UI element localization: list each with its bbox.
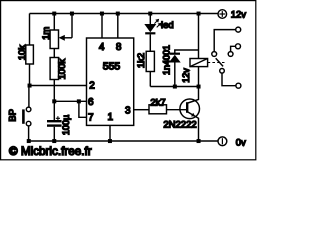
junction dot pin 8 on rail bbox=[116, 12, 120, 16]
svg-text:1n4001: 1n4001 bbox=[162, 45, 172, 75]
wire: threshold horizontal to pin 6 bbox=[54, 100, 86, 102]
relay actuation dashed link bbox=[208, 62, 225, 64]
terminal +12v plus sign bbox=[219, 11, 225, 17]
svg-text:4: 4 bbox=[99, 42, 105, 53]
junction dot trigger node bbox=[28, 84, 32, 88]
transistor Q1 2N2222 body circle bbox=[180, 99, 200, 119]
op-amp U1 555 timer body bbox=[87, 38, 134, 125]
terminal 0v bar bbox=[221, 138, 223, 144]
switch fixed contact C1 bbox=[212, 52, 217, 57]
wire: capacitor bottom to 0v rail bbox=[53, 127, 55, 141]
svg-text:2: 2 bbox=[89, 81, 95, 92]
svg-text:12v: 12v bbox=[231, 9, 247, 20]
junction dot threshold node bbox=[52, 99, 56, 103]
push button BP actuator bar bbox=[22, 109, 25, 123]
resistor 10k bbox=[26, 45, 34, 64]
wire: diode anode down to collector node bbox=[174, 63, 176, 87]
wire: BP bottom to 0v rail bbox=[28, 126, 30, 141]
wire: contact C1 to terminal T1 bbox=[214, 30, 236, 52]
svg-text:led: led bbox=[161, 20, 174, 31]
svg-text:BP: BP bbox=[8, 109, 19, 122]
svg-text:2k7: 2k7 bbox=[150, 97, 165, 108]
wire: pin 1 to 0v rail bbox=[109, 125, 111, 141]
wire: rail to LED anode bbox=[149, 14, 151, 25]
LED light arrow 2 bbox=[157, 23, 162, 28]
wire: relay coil bottom to collector node bbox=[198, 67, 200, 87]
wire: rail down to relay coil bbox=[198, 14, 200, 59]
potentiometer 1m body bbox=[50, 30, 58, 49]
wire: trigger node down to BP bbox=[28, 86, 30, 108]
junction dot BP/0v rail bbox=[27, 139, 31, 143]
border frame bbox=[1, 1, 256, 160]
resistor 1k2 bbox=[146, 51, 154, 71]
svg-text:1: 1 bbox=[108, 112, 114, 123]
svg-text:555: 555 bbox=[103, 61, 121, 73]
svg-text:8: 8 bbox=[116, 42, 122, 53]
wire: +12v top rail bbox=[30, 13, 219, 15]
switch terminal T2 bbox=[236, 44, 241, 49]
svg-text:3: 3 bbox=[125, 106, 131, 117]
wire: pin 4 to rail bbox=[101, 14, 103, 39]
LED D1 triangle bbox=[144, 24, 156, 32]
svg-text:10k: 10k bbox=[17, 45, 28, 61]
terminal +12v circle bbox=[218, 10, 227, 19]
terminal 0v circle bbox=[218, 137, 227, 146]
wire: 1k2 bottom down to collector wire bbox=[149, 72, 151, 87]
wire: wiper horizontal bbox=[64, 37, 73, 39]
junction dot relay bottom / collector bbox=[197, 85, 201, 89]
junction dot pin 4 on rail bbox=[100, 12, 104, 16]
switch terminal T3 bbox=[236, 83, 241, 88]
junction dot wiper on rail bbox=[70, 12, 74, 16]
svg-text:6: 6 bbox=[88, 97, 94, 108]
svg-text:© Micbric.free.fr: © Micbric.free.fr bbox=[9, 145, 92, 158]
wire: horizontal collector node bbox=[150, 86, 198, 88]
wire: pivot common to terminal T3 bbox=[222, 73, 236, 86]
push button BP bottom contact bbox=[26, 121, 31, 126]
wire: rail to potentiometer top bbox=[53, 14, 55, 31]
LED light arrow 1 bbox=[154, 19, 159, 24]
resistor 2k7 bbox=[149, 105, 167, 114]
wire: contact C2 to terminal T2 bbox=[231, 46, 236, 51]
wire: wiper riser bbox=[71, 14, 73, 38]
wire: trigger horizontal to pin 2 bbox=[30, 85, 87, 87]
wire: 2k7 to transistor base bbox=[167, 109, 187, 111]
switch terminal T1 bbox=[236, 27, 241, 32]
diode D2 1n4001 triangle (pointing up) bbox=[169, 55, 181, 63]
diode D2 1n4001 cathode bar bbox=[170, 53, 180, 55]
switch lever bbox=[216, 58, 223, 66]
junction dot relay on rail bbox=[197, 12, 201, 16]
junction dot pot top on rail bbox=[52, 12, 56, 16]
wire: pin 8 to rail bbox=[117, 14, 119, 39]
svg-text:2N2222: 2N2222 bbox=[163, 120, 196, 131]
svg-text:0v: 0v bbox=[236, 138, 246, 149]
capacitor plus sign bbox=[56, 116, 60, 120]
junction dot pin 1 on 0v rail bbox=[108, 139, 112, 143]
transistor emitter arrowhead bbox=[191, 113, 195, 117]
potentiometer wiper arrowhead bbox=[59, 35, 65, 41]
svg-text:12v: 12v bbox=[181, 68, 191, 83]
junction dot pin7 riser on pin6 wire bbox=[77, 99, 81, 103]
transistor base bar bbox=[186, 102, 188, 113]
wire: collector vertical into transistor bbox=[188, 87, 199, 104]
transistor emitter line bbox=[188, 112, 199, 141]
resistor 100k bbox=[50, 58, 58, 80]
wire: pin 3 output to 2k7 bbox=[134, 109, 149, 111]
wire: diode cathode up and right to relay wire bbox=[175, 50, 199, 54]
svg-text:7: 7 bbox=[88, 112, 94, 123]
wire: 0v bottom rail bbox=[29, 140, 218, 142]
junction dot emitter on 0v rail bbox=[197, 139, 201, 143]
push button BP top contact bbox=[26, 107, 31, 112]
wire: 100k bottom down to capacitor (threshold node) bbox=[53, 80, 55, 121]
svg-text:100µ: 100µ bbox=[61, 115, 71, 135]
wire: left column drop to 10k bbox=[29, 14, 31, 46]
relay coil diagonal bbox=[190, 59, 208, 67]
junction dot LED on rail bbox=[148, 12, 152, 16]
wire: pot bottom to 100k top bbox=[53, 49, 55, 58]
junction dot diode bottom bbox=[173, 85, 177, 89]
junction dot capacitor/0v rail bbox=[52, 139, 56, 143]
svg-text:100k: 100k bbox=[57, 59, 68, 80]
svg-text:1m: 1m bbox=[41, 27, 52, 40]
capacitor C1 100u top plate bbox=[47, 120, 62, 122]
LED cathode bar bbox=[145, 32, 155, 34]
wire: 10k bottom to trigger node bbox=[29, 64, 31, 86]
relay K1 coil body bbox=[190, 59, 208, 67]
capacitor C1 100u bottom plate bbox=[47, 124, 62, 126]
switch fixed contact C2 bbox=[228, 52, 233, 57]
wire: pin 7 riser bbox=[79, 101, 87, 117]
svg-text:1k2: 1k2 bbox=[136, 53, 147, 68]
switch pivot P bbox=[220, 69, 225, 74]
wire: LED cathode to 1k2 bbox=[149, 34, 151, 51]
